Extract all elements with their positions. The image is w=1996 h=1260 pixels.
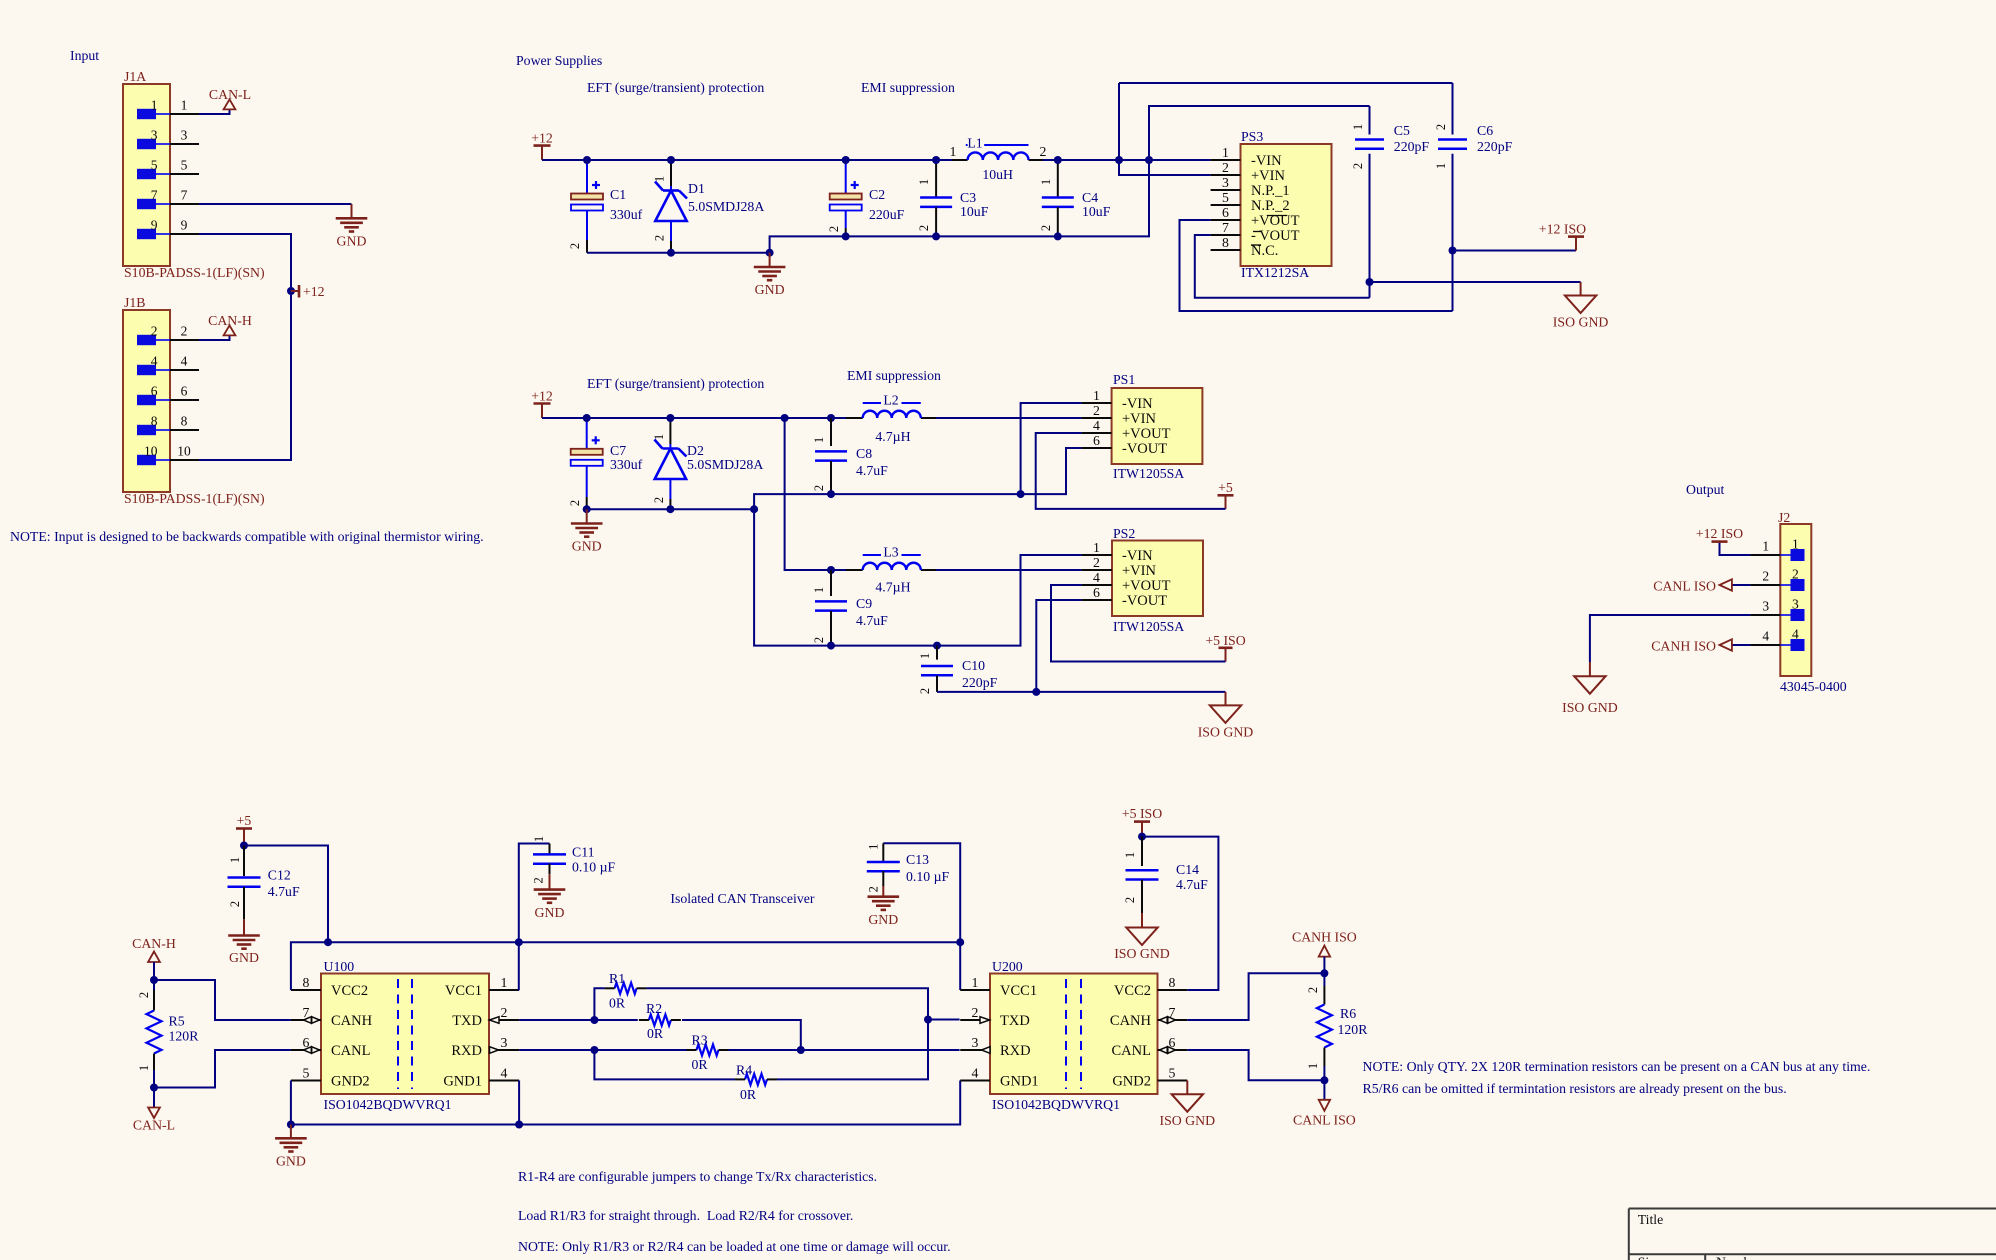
svg-text:NOTE: Only R1/R3 or R2/R4 can: NOTE: Only R1/R3 or R2/R4 can be loaded … — [518, 1239, 951, 1254]
svg-text:2: 2 — [137, 992, 151, 998]
svg-text:GND: GND — [276, 1153, 306, 1168]
svg-text:R3: R3 — [692, 1033, 708, 1048]
svg-text:2: 2 — [1040, 144, 1047, 159]
svg-text:VCC2: VCC2 — [1114, 983, 1151, 999]
svg-text:C7: C7 — [610, 443, 626, 458]
svg-text:GND: GND — [337, 233, 367, 248]
svg-text:CAN-H: CAN-H — [208, 313, 252, 328]
svg-text:1: 1 — [812, 437, 826, 443]
svg-text:1: 1 — [228, 857, 242, 863]
svg-text:6: 6 — [151, 384, 158, 399]
svg-text:VCC1: VCC1 — [445, 983, 482, 999]
svg-text:2: 2 — [568, 243, 582, 249]
svg-text:2: 2 — [827, 226, 841, 232]
svg-text:R5/R6 can be omitted if termin: R5/R6 can be omitted if termintation res… — [1363, 1081, 1787, 1096]
svg-text:120R: 120R — [1338, 1022, 1369, 1037]
svg-text:4.7uF: 4.7uF — [1176, 877, 1208, 892]
svg-text:-VIN: -VIN — [1122, 396, 1153, 412]
svg-text:4: 4 — [1093, 418, 1100, 433]
svg-text:CAN-L: CAN-L — [209, 87, 251, 102]
svg-text:+12 ISO: +12 ISO — [1539, 222, 1586, 237]
svg-text:7: 7 — [181, 188, 188, 203]
svg-text:+12: +12 — [531, 389, 553, 404]
svg-text:1: 1 — [532, 836, 546, 842]
svg-text:3: 3 — [1762, 599, 1769, 614]
svg-text:J2: J2 — [1778, 510, 1790, 525]
svg-text:4: 4 — [181, 354, 188, 369]
svg-text:2: 2 — [653, 235, 667, 241]
svg-text:10uH: 10uH — [982, 167, 1013, 182]
svg-text:C2: C2 — [869, 187, 885, 202]
svg-text:CAN-L: CAN-L — [133, 1118, 175, 1133]
svg-text:4: 4 — [972, 1066, 979, 1081]
svg-text:L2: L2 — [883, 393, 898, 408]
svg-text:1: 1 — [1093, 540, 1100, 555]
svg-text:+VIN: +VIN — [1251, 168, 1285, 184]
svg-text:-VIN: -VIN — [1251, 153, 1282, 169]
svg-text:Load R1/R3 for straight throug: Load R1/R3 for straight through. Load R2… — [518, 1208, 853, 1223]
svg-text:GND: GND — [868, 912, 898, 927]
svg-text:2: 2 — [1039, 225, 1053, 231]
svg-text:1: 1 — [1351, 124, 1365, 130]
svg-text:GND2: GND2 — [1112, 1074, 1151, 1090]
svg-text:GND: GND — [535, 905, 565, 920]
svg-text:330uf: 330uf — [610, 457, 643, 472]
svg-text:1: 1 — [1093, 388, 1100, 403]
svg-text:220pF: 220pF — [1477, 139, 1513, 154]
svg-text:8: 8 — [1169, 975, 1176, 990]
svg-text:10uF: 10uF — [960, 204, 989, 219]
svg-text:EFT (surge/transient) protecti: EFT (surge/transient) protection — [587, 376, 764, 392]
svg-text:- VOUT: - VOUT — [1251, 228, 1300, 244]
svg-text:3: 3 — [501, 1035, 508, 1050]
svg-text:7: 7 — [151, 188, 158, 203]
svg-text:2: 2 — [1434, 124, 1448, 130]
svg-text:ISO GND: ISO GND — [1198, 724, 1254, 739]
svg-text:PS1: PS1 — [1113, 372, 1135, 387]
svg-text:R5: R5 — [169, 1014, 185, 1029]
svg-text:TXD: TXD — [452, 1013, 482, 1029]
svg-text:U200: U200 — [992, 959, 1023, 974]
svg-text:2: 2 — [918, 688, 932, 694]
svg-text:2: 2 — [1123, 897, 1137, 903]
svg-text:GND1: GND1 — [1000, 1074, 1039, 1090]
svg-text:8: 8 — [181, 414, 188, 429]
svg-text:4: 4 — [501, 1066, 508, 1081]
svg-text:1: 1 — [917, 179, 931, 185]
svg-text:+5: +5 — [1218, 480, 1233, 495]
svg-text:Power Supplies: Power Supplies — [516, 53, 602, 68]
svg-text:VCC1: VCC1 — [1000, 983, 1037, 999]
svg-text:8: 8 — [151, 414, 158, 429]
svg-text:1: 1 — [1762, 539, 1769, 554]
svg-text:Number: Number — [1716, 1255, 1762, 1260]
svg-text:VCC2: VCC2 — [331, 983, 368, 999]
svg-text:-VOUT: -VOUT — [1122, 593, 1167, 609]
svg-text:1: 1 — [950, 144, 957, 159]
svg-text:8: 8 — [1222, 235, 1229, 250]
svg-text:2: 2 — [181, 324, 188, 339]
svg-text:-VOUT: -VOUT — [1122, 441, 1167, 457]
svg-text:C10: C10 — [962, 658, 985, 673]
svg-text:4.7µH: 4.7µH — [875, 580, 910, 595]
svg-text:1: 1 — [501, 975, 508, 990]
svg-text:+12 ISO: +12 ISO — [1696, 526, 1743, 541]
svg-text:7: 7 — [1222, 220, 1229, 235]
svg-text:+12: +12 — [531, 131, 553, 146]
svg-text:Size: Size — [1638, 1255, 1662, 1260]
svg-text:4.7uF: 4.7uF — [856, 463, 888, 478]
svg-text:6: 6 — [1093, 433, 1100, 448]
svg-text:C8: C8 — [856, 446, 872, 461]
svg-text:2: 2 — [1792, 567, 1799, 582]
svg-text:4: 4 — [151, 354, 158, 369]
svg-text:C6: C6 — [1477, 123, 1493, 138]
svg-text:9: 9 — [151, 218, 158, 233]
svg-text:EFT (surge/transient) protecti: EFT (surge/transient) protection — [587, 80, 764, 96]
svg-text:5: 5 — [181, 158, 188, 173]
svg-text:0R: 0R — [692, 1057, 709, 1072]
svg-text:C11: C11 — [572, 844, 595, 859]
svg-text:2: 2 — [812, 485, 826, 491]
svg-text:1: 1 — [137, 1065, 151, 1071]
svg-text:CANL ISO: CANL ISO — [1653, 579, 1716, 594]
svg-text:R1-R4 are configurable jumpers: R1-R4 are configurable jumpers to change… — [518, 1169, 877, 1184]
svg-text:EMI suppression: EMI suppression — [861, 80, 955, 95]
svg-text:C13: C13 — [906, 852, 929, 867]
svg-text:L1: L1 — [967, 136, 982, 151]
svg-text:ISO1042BQDWVRQ1: ISO1042BQDWVRQ1 — [324, 1097, 452, 1112]
svg-text:6: 6 — [1222, 205, 1229, 220]
svg-text:C3: C3 — [960, 190, 976, 205]
svg-text:C12: C12 — [268, 868, 291, 883]
svg-text:4: 4 — [1762, 629, 1769, 644]
svg-text:C9: C9 — [856, 596, 872, 611]
svg-text:2: 2 — [867, 886, 881, 892]
svg-text:1: 1 — [867, 844, 881, 850]
svg-text:1: 1 — [812, 587, 826, 593]
svg-text:2: 2 — [1306, 987, 1320, 993]
svg-text:1: 1 — [972, 975, 979, 990]
svg-text:2: 2 — [1093, 403, 1100, 418]
svg-text:S10B-PADSS-1(LF)(SN): S10B-PADSS-1(LF)(SN) — [124, 265, 265, 281]
svg-text:CANL: CANL — [331, 1043, 370, 1059]
svg-text:ISO GND: ISO GND — [1114, 946, 1170, 961]
svg-text:CAN-H: CAN-H — [132, 936, 176, 951]
svg-text:C14: C14 — [1176, 862, 1199, 877]
svg-text:U100: U100 — [324, 959, 355, 974]
svg-text:C4: C4 — [1082, 190, 1098, 205]
svg-text:5.0SMDJ28A: 5.0SMDJ28A — [687, 457, 763, 472]
svg-text:10uF: 10uF — [1082, 204, 1111, 219]
svg-text:GND: GND — [755, 282, 785, 297]
svg-text:GND2: GND2 — [331, 1074, 370, 1090]
svg-text:6: 6 — [1093, 585, 1100, 600]
svg-text:D1: D1 — [688, 181, 705, 196]
svg-text:1: 1 — [918, 653, 932, 659]
svg-text:5: 5 — [151, 158, 158, 173]
svg-text:4.7uF: 4.7uF — [268, 884, 300, 899]
svg-text:ITW1205SA: ITW1205SA — [1113, 466, 1184, 481]
svg-text:ISO GND: ISO GND — [1160, 1113, 1216, 1128]
svg-text:2: 2 — [568, 500, 582, 506]
svg-text:2: 2 — [1762, 569, 1769, 584]
svg-text:+VOUT: +VOUT — [1122, 578, 1171, 594]
svg-text:PS2: PS2 — [1113, 526, 1135, 541]
svg-text:NOTE: Only QTY. 2X 120R termin: NOTE: Only QTY. 2X 120R termination resi… — [1363, 1059, 1871, 1074]
svg-text:2: 2 — [1093, 555, 1100, 570]
svg-text:2: 2 — [972, 1005, 979, 1020]
svg-text:0R: 0R — [609, 996, 626, 1011]
svg-text:R4: R4 — [736, 1063, 752, 1078]
svg-text:5.0SMDJ28A: 5.0SMDJ28A — [688, 199, 764, 214]
svg-text:+5: +5 — [237, 813, 252, 828]
svg-text:1: 1 — [1123, 852, 1137, 858]
svg-text:120R: 120R — [169, 1029, 200, 1044]
svg-text:5: 5 — [303, 1066, 310, 1081]
svg-text:1: 1 — [1306, 1063, 1320, 1069]
svg-text:2: 2 — [812, 637, 826, 643]
svg-text:220pF: 220pF — [1394, 139, 1430, 154]
svg-text:4: 4 — [1093, 570, 1100, 585]
svg-text:CANL: CANL — [1112, 1043, 1151, 1059]
svg-text:3: 3 — [972, 1035, 979, 1050]
svg-text:220pF: 220pF — [962, 675, 998, 690]
svg-text:GND: GND — [229, 950, 259, 965]
svg-text:ISO GND: ISO GND — [1562, 700, 1618, 715]
svg-text:3: 3 — [151, 128, 158, 143]
svg-text:ITX1212SA: ITX1212SA — [1241, 265, 1309, 280]
svg-text:4: 4 — [1792, 627, 1799, 642]
svg-text:1: 1 — [653, 176, 667, 182]
svg-text:CANH: CANH — [1110, 1013, 1152, 1029]
svg-text:S10B-PADSS-1(LF)(SN): S10B-PADSS-1(LF)(SN) — [124, 491, 265, 507]
svg-text:CANH ISO: CANH ISO — [1292, 930, 1357, 945]
svg-text:N.P._2: N.P._2 — [1251, 198, 1290, 214]
svg-text:+VIN: +VIN — [1122, 563, 1156, 579]
svg-text:4.7uF: 4.7uF — [856, 613, 888, 628]
svg-text:D2: D2 — [687, 443, 704, 458]
svg-text:3: 3 — [1222, 175, 1229, 190]
svg-text:4.7µH: 4.7µH — [875, 429, 910, 444]
svg-text:2: 2 — [228, 901, 242, 907]
svg-text:10: 10 — [144, 444, 158, 459]
svg-text:220uF: 220uF — [869, 207, 905, 222]
svg-text:+12: +12 — [303, 284, 325, 299]
svg-text:RXD: RXD — [451, 1043, 482, 1059]
svg-text:1: 1 — [1222, 145, 1229, 160]
svg-text:43045-0400: 43045-0400 — [1780, 679, 1847, 694]
svg-text:Output: Output — [1686, 482, 1724, 497]
svg-text:0R: 0R — [740, 1087, 757, 1102]
svg-text:1: 1 — [1434, 163, 1448, 169]
svg-text:N.P._1: N.P._1 — [1251, 183, 1290, 199]
svg-text:5: 5 — [1222, 190, 1229, 205]
svg-text:RXD: RXD — [1000, 1043, 1031, 1059]
svg-text:2: 2 — [917, 225, 931, 231]
svg-text:3: 3 — [181, 128, 188, 143]
svg-text:2: 2 — [652, 497, 666, 503]
svg-text:CANL ISO: CANL ISO — [1293, 1113, 1356, 1128]
svg-text:2: 2 — [501, 1005, 508, 1020]
svg-text:R2: R2 — [646, 1001, 662, 1016]
svg-text:2: 2 — [151, 324, 158, 339]
svg-text:1: 1 — [652, 434, 666, 440]
svg-text:1: 1 — [151, 98, 158, 113]
svg-text:0.10 µF: 0.10 µF — [572, 859, 616, 874]
svg-text:EMI suppression: EMI suppression — [847, 368, 941, 383]
svg-text:2: 2 — [532, 877, 546, 883]
svg-text:+VOUT: +VOUT — [1122, 426, 1171, 442]
svg-text:NOTE: Input is designed to be: NOTE: Input is designed to be backwards … — [10, 529, 484, 544]
svg-text:10: 10 — [177, 444, 191, 459]
svg-text:-VIN: -VIN — [1122, 548, 1153, 564]
svg-text:1: 1 — [181, 98, 188, 113]
svg-text:R1: R1 — [609, 971, 625, 986]
svg-text:+5 ISO: +5 ISO — [1122, 806, 1162, 821]
svg-text:+VIN: +VIN — [1122, 411, 1156, 427]
svg-text:ISO1042BQDWVRQ1: ISO1042BQDWVRQ1 — [992, 1097, 1120, 1112]
svg-text:ISO GND: ISO GND — [1553, 315, 1609, 330]
svg-text:1: 1 — [1039, 179, 1053, 185]
svg-text:5: 5 — [1169, 1066, 1176, 1081]
svg-text:Isolated CAN Transceiver: Isolated CAN Transceiver — [670, 891, 814, 906]
svg-text:0R: 0R — [647, 1026, 664, 1041]
svg-text:GND1: GND1 — [443, 1074, 482, 1090]
svg-text:J1B: J1B — [124, 295, 145, 310]
svg-text:CANH: CANH — [331, 1013, 373, 1029]
svg-text:2: 2 — [1351, 163, 1365, 169]
svg-text:0.10 µF: 0.10 µF — [906, 869, 950, 884]
svg-text:Input: Input — [70, 48, 99, 63]
svg-text:ITW1205SA: ITW1205SA — [1113, 619, 1184, 634]
svg-text:C5: C5 — [1394, 123, 1410, 138]
svg-text:TXD: TXD — [1000, 1013, 1030, 1029]
svg-text:+5 ISO: +5 ISO — [1205, 633, 1245, 648]
svg-text:8: 8 — [303, 975, 310, 990]
svg-text:1: 1 — [1792, 537, 1799, 552]
svg-text:GND: GND — [572, 539, 602, 554]
svg-text:R6: R6 — [1340, 1006, 1356, 1021]
svg-text:L3: L3 — [883, 545, 898, 560]
svg-text:PS3: PS3 — [1241, 129, 1263, 144]
svg-text:9: 9 — [181, 218, 188, 233]
svg-text:3: 3 — [1792, 597, 1799, 612]
svg-text:330uf: 330uf — [610, 207, 643, 222]
svg-text:J1A: J1A — [124, 69, 146, 84]
svg-text:Title: Title — [1638, 1212, 1664, 1227]
svg-text:6: 6 — [181, 384, 188, 399]
svg-text:2: 2 — [1222, 160, 1229, 175]
svg-text:CANH ISO: CANH ISO — [1651, 639, 1716, 654]
svg-text:C1: C1 — [610, 187, 626, 202]
